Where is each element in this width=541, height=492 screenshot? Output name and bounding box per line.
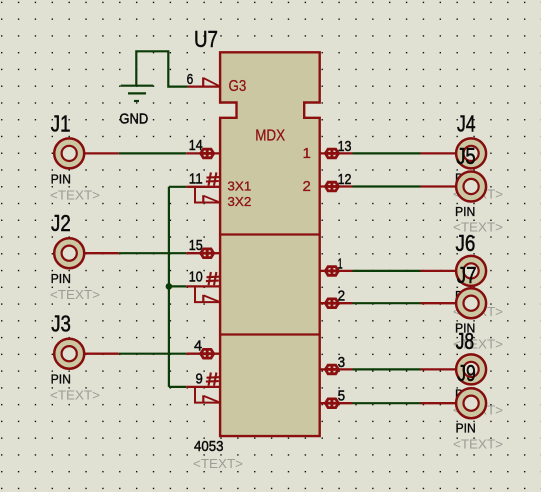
svg-text:PIN: PIN: [455, 204, 475, 219]
svg-text:J7: J7: [457, 262, 477, 288]
svg-text:10: 10: [189, 269, 203, 286]
svg-text:<TEXT>: <TEXT>: [193, 456, 243, 471]
svg-text:J2: J2: [51, 210, 71, 236]
svg-text:15: 15: [189, 237, 203, 254]
svg-text:4053: 4053: [194, 438, 224, 455]
svg-text:J5: J5: [456, 143, 476, 169]
svg-text:J8: J8: [456, 328, 475, 354]
svg-text:2: 2: [302, 178, 310, 195]
svg-text:PIN: PIN: [51, 372, 71, 387]
svg-text:GND: GND: [119, 111, 148, 128]
svg-text:3X2: 3X2: [227, 195, 251, 209]
svg-text:PIN: PIN: [456, 421, 476, 436]
svg-text:<TEXT>: <TEXT>: [50, 287, 100, 302]
svg-text:MDX: MDX: [255, 127, 285, 144]
svg-text:G3: G3: [229, 78, 247, 95]
svg-text:U7: U7: [194, 26, 218, 52]
svg-text:<TEXT>: <TEXT>: [50, 388, 100, 403]
svg-text:PIN: PIN: [51, 171, 71, 186]
svg-text:J3: J3: [51, 311, 71, 337]
svg-text:PIN: PIN: [51, 271, 71, 286]
svg-text:5: 5: [338, 388, 346, 405]
svg-text:13: 13: [338, 138, 352, 155]
svg-text:1: 1: [338, 255, 343, 272]
svg-text:J9: J9: [457, 360, 476, 386]
svg-text:2: 2: [338, 288, 346, 305]
svg-text:6: 6: [187, 71, 194, 88]
svg-text:J4: J4: [457, 110, 476, 136]
svg-text:J1: J1: [51, 110, 71, 136]
svg-text:<TEXT>: <TEXT>: [453, 436, 503, 451]
svg-text:11: 11: [189, 171, 203, 188]
svg-text:J6: J6: [456, 230, 476, 256]
svg-text:9: 9: [196, 371, 203, 388]
svg-text:4: 4: [194, 338, 202, 355]
svg-text:3: 3: [338, 354, 346, 371]
svg-text:3X1: 3X1: [227, 180, 251, 194]
svg-text:14: 14: [189, 137, 203, 154]
svg-text:1: 1: [302, 145, 310, 162]
svg-text:<TEXT>: <TEXT>: [50, 187, 100, 202]
svg-text:12: 12: [338, 171, 352, 188]
